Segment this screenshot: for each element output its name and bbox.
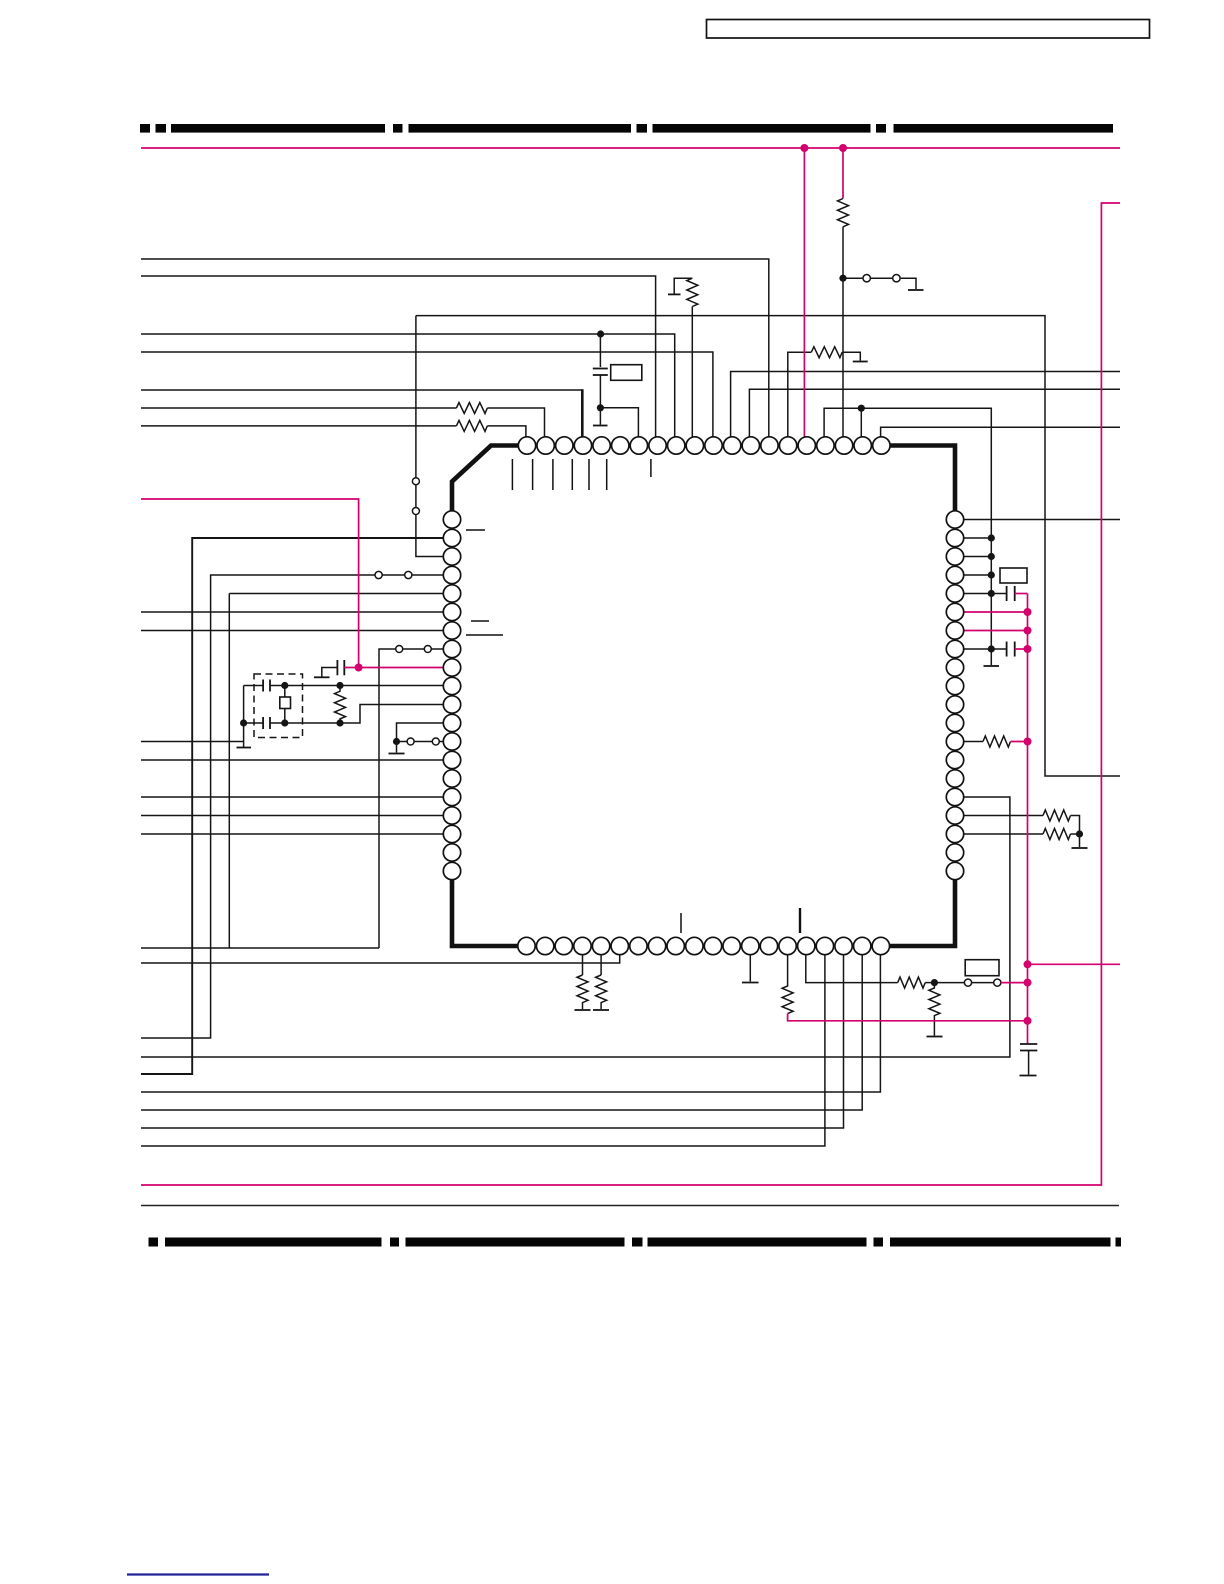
capacitor C3: [1007, 642, 1015, 657]
resistor R9: [898, 977, 926, 988]
ground G3 for SW1: [908, 289, 924, 291]
ground G8: [575, 1009, 591, 1011]
wire lead net G: [141, 407, 456, 409]
node M10: [1024, 1017, 1032, 1025]
node R2a: [988, 534, 995, 541]
wire pin2 right: [964, 537, 992, 539]
node B1: [931, 979, 938, 986]
resistor R4 chain below magenta: [838, 199, 849, 227]
resistor R7: [1043, 810, 1071, 821]
node rail C56: [240, 719, 247, 726]
wire magenta R6 to rail: [1011, 741, 1028, 743]
wire pin16 left: [141, 796, 443, 798]
bottom-left blue footer line: [127, 1573, 269, 1575]
node J1: [858, 405, 865, 412]
wire net P to left edge: [141, 947, 379, 949]
resistor R8: [1043, 829, 1071, 840]
node R4a: [988, 571, 995, 578]
ground below C1: [593, 408, 608, 426]
wire pin5 left: [229, 593, 443, 595]
wire pin17 left: [141, 815, 443, 817]
wire pin7 left: [141, 630, 443, 632]
ground G5: [853, 361, 868, 363]
wire net T vertical: [228, 594, 230, 949]
wire pin16 bottom to resistor row: [806, 955, 898, 983]
resistor R1: [456, 403, 487, 414]
node R3a: [988, 553, 995, 560]
ground G4 right rail: [984, 665, 1000, 667]
wire crystal top lead: [284, 686, 286, 698]
wire magenta JP3 to rail: [1001, 982, 1028, 984]
wire net Q left: [141, 575, 375, 1038]
node R8a: [988, 645, 995, 652]
bottom thin rule: [141, 1205, 1119, 1207]
ground G11: [237, 747, 252, 749]
wire lead pin15 top: [788, 352, 812, 437]
wire R2 to pin1 top: [487, 426, 526, 437]
resistor R6: [983, 736, 1011, 747]
wire magenta right rail: [1027, 594, 1029, 1044]
wire net J right segment with pin17/pin19: [824, 408, 991, 665]
wire pin4 bottom: [582, 955, 584, 975]
wire pin6 bottom to left edge: [141, 955, 620, 963]
resistor R5: [811, 347, 842, 358]
oscillator dashed box: [254, 674, 303, 738]
wire pin6 left: [141, 611, 443, 613]
wire magenta top rail: [141, 147, 1120, 149]
title box top right: [707, 20, 1150, 39]
resistor R13 below pin15 bottom: [782, 955, 793, 1014]
capacitor C7 below magenta rail: [1020, 1044, 1037, 1075]
wire R7 to node: [1071, 816, 1080, 835]
IC U1 left pins: [443, 511, 460, 880]
resistor R10 below node B1: [929, 983, 940, 1036]
wire node D2 to pin7 top: [600, 408, 638, 437]
IC U1 right pins: [946, 511, 963, 880]
capacitor C2: [1007, 586, 1015, 601]
wire magenta R13 to rail: [788, 1014, 1028, 1021]
component box right: [1000, 568, 1027, 583]
wire bus pin20 bottom: [141, 955, 880, 1092]
wire magenta pin6 right: [964, 611, 1028, 613]
pin index ticks bottom inside: [681, 908, 800, 933]
wire net M pin20 top to right edge: [881, 427, 1120, 437]
ground G6: [1072, 847, 1088, 849]
resistor R14 oscillator: [335, 686, 346, 724]
wire V1 ground lead: [396, 742, 398, 753]
wire pin12 left: [397, 723, 444, 742]
wire pin13 bottom ground lead: [749, 955, 751, 982]
wire pin4 right: [964, 574, 992, 576]
wire magenta to resistor R4: [842, 148, 844, 199]
op-amp / IC U1 body outline: [452, 446, 955, 947]
wire pin8 right: [964, 648, 1007, 650]
capacitor C4: [322, 660, 345, 677]
jumper SW1 contacts: [843, 275, 916, 290]
wire pin8 left jumper chain: [379, 646, 443, 949]
wire pin18 right lead: [964, 833, 1043, 835]
jumper JP1 contacts pin4 left: [375, 571, 443, 578]
pin index ticks top inside: [512, 459, 651, 490]
node M2: [839, 144, 847, 152]
wire pin17 right lead: [964, 815, 1043, 817]
wire pin3 left chain with jumper JP2: [412, 316, 443, 557]
ground G9: [593, 1009, 609, 1011]
wire pin13 right lead: [964, 741, 983, 743]
wire net E to pin11 top: [141, 352, 713, 437]
node M6: [1024, 645, 1032, 653]
wire R5 to ground: [842, 352, 860, 360]
wire bus pin17 bottom: [141, 955, 825, 1146]
wire R1 to pin2 top: [487, 408, 544, 437]
wire pin5 right: [964, 593, 1007, 595]
wire R9 to node: [925, 982, 934, 984]
node X2b: [281, 719, 288, 726]
wire osc bottom node to pin11 left: [244, 705, 444, 724]
ground G14 for C4: [314, 676, 330, 678]
IC U1 top pins: [518, 437, 890, 454]
wire net F to pin4 top: [141, 389, 582, 391]
wire net F riser (thick): [581, 389, 584, 437]
wire node J1 to pin19 top: [860, 408, 862, 437]
ground G10: [742, 982, 759, 984]
resonator X1 body: [611, 365, 642, 381]
resistor R11: [577, 975, 588, 1009]
capacitor C5 plates: [263, 680, 270, 692]
wire magenta branch right: [1028, 963, 1121, 965]
pin index ticks left inside: [466, 530, 503, 635]
wire magenta C2 to rail: [1015, 593, 1028, 595]
wire pin18 left: [141, 833, 443, 835]
wire magenta pin7 right: [964, 630, 1028, 632]
resistor R3: [687, 278, 698, 306]
wire bus pin18 bottom: [141, 955, 844, 1128]
capacitor C1 (resonator cap): [593, 334, 608, 408]
node M5: [1024, 627, 1032, 635]
wire net D to pin9 top: [141, 334, 675, 437]
wire net S left (thick end): [141, 538, 443, 1074]
wire bus pin19 bottom: [141, 955, 862, 1110]
node R5a: [988, 590, 995, 597]
node M8: [1024, 960, 1032, 968]
wire osc top node to pin10 left: [244, 685, 444, 687]
wire crystal bottom lead: [284, 709, 286, 724]
wire net L pin13 top to right edge: [749, 389, 1120, 437]
capacitor C6 plates: [263, 717, 270, 729]
top separator dashed bar: [140, 124, 1113, 133]
jumper JP4 contacts pin13 left: [397, 738, 444, 745]
wire net K pin12 top to right edge: [731, 372, 1120, 438]
node M3: [355, 664, 363, 672]
node V1: [393, 738, 400, 745]
ground G13: [1020, 1075, 1037, 1077]
wire pin16 right to left edge: [141, 797, 1010, 1057]
node R18: [1076, 830, 1083, 837]
wire pin3 right: [964, 556, 992, 558]
wire magenta C3 to rail: [1015, 648, 1028, 650]
wire osc ground rail: [243, 686, 245, 748]
wire magenta to pin16 top: [803, 148, 805, 437]
bottom separator dashed bar: [149, 1238, 1122, 1247]
node D2: [597, 404, 604, 411]
wire pin5 bottom: [600, 955, 602, 975]
resistor R2: [456, 420, 487, 431]
wire net A to pin14 top: [141, 259, 769, 437]
node R14a: [336, 682, 343, 689]
node M9: [1024, 979, 1032, 987]
node M4: [1024, 608, 1032, 616]
IC U1 bottom pins: [518, 937, 890, 954]
node X2a: [281, 682, 288, 689]
ground G7: [927, 1036, 943, 1038]
jumper JP3 contacts: [934, 979, 1001, 986]
wire net B to pin8 top: [141, 276, 656, 437]
wire R4 to pin18 top: [842, 227, 844, 437]
ground G12: [389, 753, 405, 755]
ground G2 above resistor R3: [668, 293, 681, 295]
node SW1: [839, 275, 846, 282]
wire R3 to pin10 top: [691, 307, 693, 438]
crystal X2 body: [280, 697, 291, 709]
resistor R12: [596, 975, 607, 1009]
node D1: [597, 330, 604, 337]
wire magenta C4 plate to node M3: [344, 667, 358, 669]
node R14b: [336, 719, 343, 726]
wire net U to osc rail: [141, 741, 244, 743]
node M1: [800, 144, 808, 152]
wire ground to R3: [674, 278, 692, 294]
wire magenta right drop: [141, 203, 1120, 1185]
wire lead net H: [141, 425, 456, 427]
wire magenta left net: [141, 499, 443, 668]
wire long net C over IC to right edge: [416, 316, 1120, 776]
wire pin14 left: [141, 759, 443, 761]
wire pin1 right to edge: [964, 519, 1120, 521]
node M7: [1024, 738, 1032, 746]
wire R8 to node: [1071, 833, 1080, 835]
jumper body JP3: [965, 960, 999, 976]
wire node to ground: [1079, 834, 1081, 847]
